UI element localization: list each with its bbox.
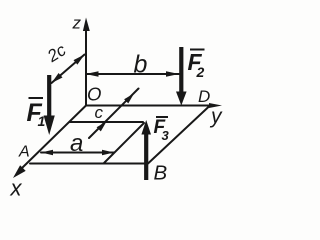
force F1 [44,75,55,135]
svg-text:c: c [95,103,104,122]
label F1 with bar [27,98,46,129]
a arrowhead right [102,150,114,156]
c dimension arrowhead lower (points up-right) [97,122,107,132]
svg-text:O: O [87,84,101,105]
inner diagonal through F3 point [104,123,144,163]
svg-text:b: b [134,51,148,79]
svg-text:x: x [10,176,23,201]
label F2 with bar [188,49,205,80]
x axis arrowhead [13,165,26,178]
force F3 [141,120,151,180]
y axis [86,105,211,107]
svg-text:z: z [72,14,82,33]
svg-text:1: 1 [38,113,46,129]
svg-text:B: B [154,162,168,185]
b dimension line [86,73,179,75]
label F3 with bar [154,117,170,143]
a arrowhead left [41,150,53,156]
svg-text:3: 3 [162,128,170,143]
svg-text:A: A [18,144,30,161]
svg-text:2: 2 [196,64,205,80]
z axis arrowhead [83,18,90,32]
plate right edge DB [148,106,210,164]
2c arrowhead lower-left [52,73,63,83]
y axis arrowhead [209,103,222,108]
b arrowhead right [166,71,179,77]
plate bottom edge AB [30,163,146,165]
z axis [85,29,87,106]
2c arrowhead upper-right [74,55,85,65]
svg-text:D: D [198,87,210,106]
svg-text:a: a [70,130,83,157]
force F2 [176,47,187,106]
a dimension line [41,152,114,154]
svg-text:y: y [209,105,223,128]
x axis [22,106,86,169]
b arrowhead left [86,71,99,77]
2c dimension line [52,55,85,84]
c dimension arrowhead upper (points up-right) [124,94,134,104]
inner line parallel OD (c offset) [70,121,143,123]
c dimension diagonal line [89,89,139,139]
